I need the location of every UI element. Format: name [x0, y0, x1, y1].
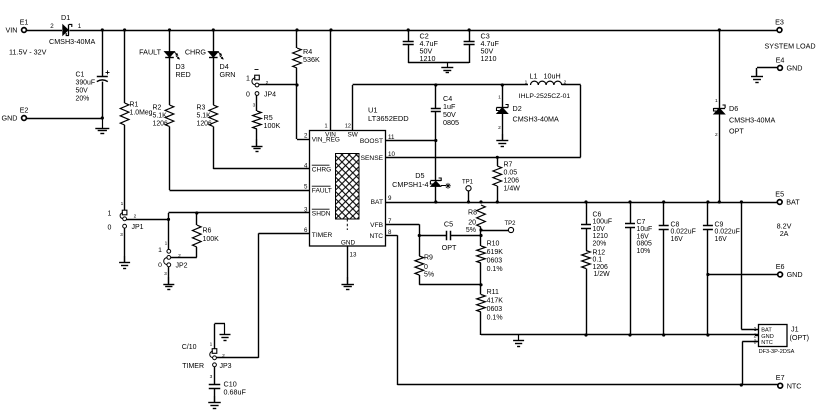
inductor L1 10uH	[519, 72, 581, 101]
svg-text:0.68uF: 0.68uF	[224, 388, 247, 397]
svg-text:CMPSH1-4: CMPSH1-4	[392, 180, 428, 189]
svg-text:DF3-3P-2DSA: DF3-3P-2DSA	[759, 349, 795, 355]
svg-text:R7: R7	[504, 162, 513, 169]
svg-text:JP2: JP2	[176, 263, 188, 270]
svg-text:5%: 5%	[424, 271, 434, 278]
wire VIN pin 1	[330, 30, 332, 131]
svg-text:20%: 20%	[593, 240, 607, 247]
connector J1 DF3-3P-2DSA	[754, 325, 809, 356]
svg-text:2: 2	[50, 23, 54, 30]
svg-text:SENSE: SENSE	[361, 155, 384, 162]
svg-text:3: 3	[120, 232, 123, 238]
svg-text:2: 2	[754, 333, 757, 339]
test point TP1	[462, 179, 474, 202]
svg-text:GND: GND	[761, 334, 773, 340]
svg-text:VIN_REG: VIN_REG	[312, 137, 340, 144]
svg-text:0: 0	[246, 92, 250, 99]
svg-text:0805: 0805	[637, 241, 652, 248]
wire BOOST pin	[386, 139, 438, 142]
svg-text:100K: 100K	[203, 236, 220, 243]
svg-text:1206: 1206	[153, 121, 168, 128]
svg-text:D5: D5	[415, 171, 424, 180]
svg-text:1: 1	[158, 247, 162, 254]
svg-text:OPT: OPT	[729, 127, 744, 136]
svg-text:VFB: VFB	[370, 222, 383, 229]
svg-text:12: 12	[345, 124, 351, 130]
wire R1 to JP1	[124, 125, 126, 210]
terminal E5 BAT	[775, 190, 800, 239]
svg-text:1: 1	[108, 210, 112, 217]
resistor R4	[293, 30, 320, 68]
op-amp U1 LT3652EDD charger IC	[304, 106, 409, 259]
svg-text:2: 2	[498, 125, 501, 131]
diode D5 CMPSH1-4 boost diode	[392, 141, 451, 203]
svg-text:IHLP-2525CZ-01: IHLP-2525CZ-01	[519, 93, 571, 100]
svg-text:R3: R3	[197, 105, 206, 112]
ground below C10	[208, 396, 221, 409]
terminal E4 GND	[776, 55, 803, 72]
ground above JP3	[220, 324, 231, 341]
svg-text:50V: 50V	[76, 88, 89, 95]
svg-text:8: 8	[388, 229, 392, 236]
svg-text:2: 2	[715, 132, 718, 138]
svg-text:3: 3	[164, 271, 167, 277]
svg-text:0.1: 0.1	[593, 257, 603, 264]
svg-text:CHRG: CHRG	[185, 48, 207, 57]
svg-text:BAT: BAT	[786, 198, 800, 207]
svg-text:BOOST: BOOST	[360, 138, 383, 145]
ground on ground rail	[513, 335, 524, 347]
wire BAT rail	[386, 200, 778, 203]
wire JP4 to R4 node	[259, 83, 299, 86]
svg-text:1: 1	[165, 241, 168, 247]
svg-text:GND: GND	[787, 270, 803, 279]
svg-text:10V: 10V	[593, 226, 606, 233]
wire BAT to J1 pin 1	[741, 202, 758, 330]
svg-text:9: 9	[388, 195, 392, 202]
svg-text:FAULT: FAULT	[312, 188, 332, 195]
wire E6 to C9 ground column	[706, 273, 777, 276]
svg-text:RED: RED	[176, 70, 191, 79]
svg-text:JP1: JP1	[132, 224, 144, 231]
svg-text:1206: 1206	[197, 121, 212, 128]
terminal E2 GND	[2, 106, 29, 123]
svg-text:R9: R9	[424, 255, 433, 262]
svg-text:R11: R11	[487, 289, 499, 296]
resistor R8	[466, 205, 485, 246]
capacitor C7	[625, 202, 652, 335]
wire NTC pin	[386, 235, 398, 385]
svg-text:0.05: 0.05	[504, 170, 518, 177]
svg-text:16V: 16V	[637, 233, 650, 240]
resistor R2	[153, 57, 174, 127]
svg-text:(OPT): (OPT)	[790, 333, 810, 342]
ground below C1	[95, 118, 109, 134]
svg-text:3: 3	[253, 103, 256, 109]
jumper JP1	[108, 201, 144, 263]
svg-text:11.5V - 32V: 11.5V - 32V	[9, 48, 47, 57]
wire C2 C3 ground bus	[408, 62, 469, 64]
svg-text:TP2: TP2	[504, 221, 516, 227]
svg-text:2A: 2A	[780, 229, 789, 238]
svg-text:E5: E5	[775, 190, 784, 199]
svg-text:16V: 16V	[671, 236, 684, 243]
svg-text:SW: SW	[347, 132, 358, 139]
wire R2 to FAULT pin	[170, 127, 310, 191]
svg-text:C6: C6	[593, 212, 602, 219]
svg-text:0: 0	[158, 262, 162, 269]
svg-text:1206: 1206	[504, 178, 520, 185]
jumper JP4	[246, 70, 276, 112]
svg-text:NTC: NTC	[787, 381, 802, 390]
terminal E6 GND	[776, 262, 803, 279]
svg-text:E6: E6	[776, 262, 785, 271]
svg-text:VIN: VIN	[6, 26, 18, 35]
svg-text:3: 3	[304, 207, 308, 214]
resistor R11	[477, 289, 504, 335]
svg-text:2: 2	[222, 353, 225, 359]
wire R3 to CHRG pin	[213, 127, 309, 170]
wire E4 to ground	[757, 68, 778, 77]
wire SW node	[353, 83, 529, 131]
svg-text:FAULT: FAULT	[139, 48, 161, 57]
ground U1 GND pin 13	[341, 246, 354, 289]
svg-text:E3: E3	[775, 18, 784, 27]
wire NTC rail	[397, 383, 777, 386]
svg-text:R12: R12	[593, 250, 606, 257]
test point TP2	[479, 221, 516, 233]
capacitor C10	[209, 367, 247, 403]
svg-text:JP3: JP3	[220, 363, 232, 370]
svg-text:C/10: C/10	[182, 344, 197, 351]
svg-text:5: 5	[304, 184, 308, 191]
wire R9 to divider node	[419, 283, 482, 286]
wire JP3 pin1 to ground	[215, 324, 226, 349]
svg-text:20%: 20%	[76, 96, 90, 103]
resistor R3	[197, 57, 218, 127]
terminal E3 SYSTEM LOAD	[765, 18, 816, 51]
capacitor C8	[659, 202, 696, 335]
capacitor C6	[581, 202, 612, 251]
svg-text:619K: 619K	[487, 249, 504, 256]
capacitor C3	[464, 30, 500, 63]
terminal E1 VIN	[6, 18, 47, 57]
capacitor C9	[703, 202, 740, 335]
svg-text:CHRG: CHRG	[312, 167, 331, 174]
resistor R9 0 ohm	[415, 255, 434, 285]
svg-text:1/2W: 1/2W	[594, 271, 611, 278]
svg-text:1: 1	[498, 95, 501, 101]
svg-text:D1: D1	[61, 13, 70, 22]
resistor R6	[193, 213, 220, 257]
svg-text:10: 10	[388, 151, 395, 158]
svg-text:10%: 10%	[637, 248, 651, 255]
svg-text:C7: C7	[637, 219, 646, 226]
wire JP1 to SHDN	[127, 211, 310, 221]
junction dots on VIN rail	[101, 28, 721, 31]
terminal E7 NTC	[776, 373, 802, 390]
ground below JP2	[163, 277, 174, 290]
capacitor C4	[431, 85, 459, 141]
resistor R7 current sense	[493, 157, 520, 202]
wire VIN rail	[27, 30, 778, 32]
svg-text:0603: 0603	[487, 258, 503, 265]
svg-text:E2: E2	[20, 106, 29, 115]
svg-text:CMSH3-40MA: CMSH3-40MA	[49, 37, 96, 46]
svg-text:0805: 0805	[443, 118, 459, 127]
svg-text:390uF: 390uF	[76, 80, 96, 87]
svg-text:20: 20	[468, 220, 476, 227]
svg-text:C8: C8	[671, 222, 680, 229]
svg-text:417K: 417K	[487, 298, 504, 305]
svg-text:NTC: NTC	[761, 340, 773, 346]
wire L1 to SENSE	[386, 85, 581, 159]
svg-text:16V: 16V	[715, 236, 728, 243]
resistor R12	[582, 250, 610, 336]
wire VFB pin	[386, 224, 420, 256]
svg-text:GRN: GRN	[220, 70, 236, 79]
svg-text:4: 4	[304, 163, 308, 170]
LED D3 RED	[139, 30, 191, 79]
svg-text:D6: D6	[729, 104, 738, 113]
svg-text:BAT: BAT	[761, 328, 772, 334]
svg-text:E7: E7	[776, 373, 785, 382]
wire JP2 to R6	[171, 257, 197, 259]
svg-text:100uF: 100uF	[593, 219, 613, 226]
svg-text:5.1K: 5.1K	[197, 113, 212, 120]
svg-text:OPT: OPT	[442, 243, 457, 252]
svg-text:BAT: BAT	[371, 199, 383, 206]
svg-text:1: 1	[210, 342, 213, 348]
wire E2 to C1	[27, 116, 104, 119]
svg-text:1: 1	[324, 124, 327, 130]
wire J1 pin 3 to NTC rail	[742, 342, 758, 386]
svg-text:1210: 1210	[593, 233, 608, 240]
svg-text:1206: 1206	[593, 264, 608, 271]
svg-text:1: 1	[246, 76, 250, 83]
svg-text:3: 3	[754, 340, 757, 346]
svg-text:0.022uF: 0.022uF	[715, 229, 740, 236]
ground below D2	[496, 134, 508, 147]
svg-text:0.1%: 0.1%	[487, 266, 503, 273]
svg-text:NTC: NTC	[369, 233, 383, 240]
svg-text:LT3652EDD: LT3652EDD	[368, 114, 409, 123]
svg-text:1: 1	[525, 80, 528, 86]
svg-text:CMSH3-40MA: CMSH3-40MA	[513, 115, 560, 124]
svg-text:CMSH3-40MA: CMSH3-40MA	[729, 116, 776, 125]
svg-text:GND: GND	[341, 240, 356, 247]
svg-text:5%: 5%	[466, 227, 476, 234]
svg-text:R6: R6	[203, 228, 212, 235]
svg-text:TP1: TP1	[462, 179, 474, 185]
svg-text:C1: C1	[76, 72, 85, 79]
svg-text:0.022uF: 0.022uF	[671, 229, 696, 236]
svg-text:D2: D2	[513, 104, 522, 113]
wire ground rail	[481, 333, 759, 336]
svg-text:1: 1	[715, 98, 718, 104]
svg-text:GND: GND	[2, 114, 18, 123]
svg-text:10uF: 10uF	[637, 226, 653, 233]
svg-text:2: 2	[134, 214, 137, 220]
wire R4 to VIN_REG pin	[297, 68, 310, 140]
LED D4 GRN	[185, 30, 236, 79]
svg-text:5.1K: 5.1K	[153, 113, 168, 120]
capacitor C2	[403, 30, 439, 63]
ground below JP1	[119, 256, 130, 269]
resistor R1	[120, 30, 152, 125]
svg-text:7: 7	[388, 218, 392, 225]
diode D1	[49, 13, 96, 46]
svg-text:1: 1	[754, 327, 757, 333]
svg-text:C5: C5	[444, 220, 453, 229]
diode D2 CMSH3-40MA catch diode	[497, 85, 560, 141]
svg-text:536K: 536K	[303, 55, 320, 64]
svg-text:1: 1	[78, 23, 82, 30]
svg-text:3: 3	[210, 374, 213, 380]
svg-text:0: 0	[108, 224, 112, 231]
svg-text:E1: E1	[20, 18, 29, 27]
resistor R10	[477, 241, 504, 295]
svg-text:100K: 100K	[264, 121, 281, 130]
svg-text:10uH: 10uH	[544, 72, 561, 81]
svg-text:L1: L1	[530, 72, 538, 81]
capacitor C1	[76, 30, 110, 118]
svg-text:GND: GND	[787, 64, 803, 73]
svg-text:1: 1	[121, 201, 124, 207]
svg-text:0603: 0603	[487, 306, 503, 313]
svg-text:0: 0	[424, 264, 428, 271]
svg-text:TIMER: TIMER	[312, 232, 333, 239]
svg-text:C9: C9	[715, 222, 724, 229]
jumper JP3	[182, 342, 232, 380]
ground below C2 C3	[441, 63, 453, 73]
svg-text:R2: R2	[153, 105, 162, 112]
svg-text:E4: E4	[776, 55, 785, 64]
svg-text:R1: R1	[130, 102, 139, 109]
svg-text:JP4: JP4	[264, 92, 276, 99]
svg-text:SYSTEM LOAD: SYSTEM LOAD	[765, 42, 816, 51]
svg-text:0.1%: 0.1%	[487, 315, 503, 322]
svg-text:R8: R8	[468, 210, 477, 217]
svg-text:1210: 1210	[420, 54, 436, 63]
capacitor C5 OPT	[418, 220, 483, 253]
svg-text:TIMER: TIMER	[182, 363, 204, 370]
diode D6 CMSH3-40MA OPT	[714, 30, 776, 202]
svg-text:1/4W: 1/4W	[504, 186, 521, 193]
svg-text:1210: 1210	[481, 54, 497, 63]
svg-text:1.0Meg: 1.0Meg	[130, 110, 153, 117]
resistor R5	[253, 111, 281, 146]
wire TIMER pin	[217, 233, 310, 357]
wire ground rail to J1 pin 2	[755, 335, 759, 337]
svg-text:2: 2	[304, 133, 308, 140]
ground below R5	[252, 139, 263, 152]
svg-text:SHDN: SHDN	[312, 211, 331, 218]
svg-text:13: 13	[350, 252, 357, 259]
ground below E4	[751, 70, 763, 83]
jumper JP2	[158, 219, 188, 284]
svg-text:R10: R10	[487, 241, 500, 248]
